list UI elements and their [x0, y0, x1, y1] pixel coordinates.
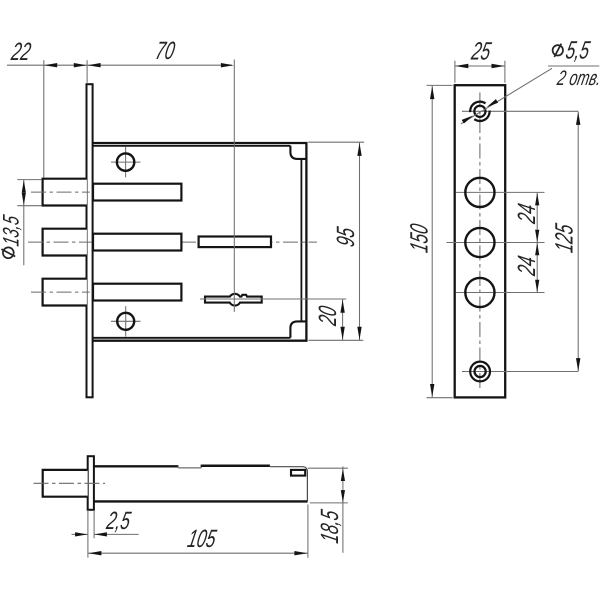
bolt hole 1 [465, 178, 494, 207]
bolt 1 [43, 179, 87, 206]
label 18,5 [316, 508, 344, 546]
arrow 70 left [88, 63, 101, 67]
extension line bolt end [43, 60, 45, 177]
top screw hole crosshair [462, 110, 578, 112]
bolt 2 [43, 229, 87, 256]
label 105 [185, 525, 218, 553]
lock body outline [93, 143, 307, 341]
leader line [461, 66, 600, 124]
hole row 2 centerline [447, 242, 545, 244]
dim 2.5 tails [72, 533, 139, 535]
leader arrow NE [487, 99, 498, 107]
top screw hole outer arcs [470, 102, 489, 121]
svg-text:2 отв.: 2 отв. [555, 67, 600, 90]
label 2,5 [104, 507, 133, 535]
leader arrow SW [462, 116, 473, 124]
keyhole slot [205, 294, 262, 306]
label dia 13,5 symbol [1, 247, 15, 258]
screw hole bottom [117, 313, 134, 330]
arrow 20 down [340, 327, 344, 340]
dim 95-20 ext bottom [308, 339, 363, 341]
label 5,5 [564, 36, 593, 64]
label dia 5,5 symbol [553, 44, 563, 57]
faceplate (bottom view) [88, 456, 94, 510]
arrow 105 left [88, 551, 101, 555]
svg-text:13,5: 13,5 [0, 213, 24, 248]
bolt hole 3 [465, 278, 494, 307]
dim 105 ext right [307, 505, 309, 558]
dim 150 ext top [427, 84, 453, 86]
dim 150 ext bottom [427, 397, 453, 399]
dim 105 line [88, 552, 308, 554]
extension line plate edge [86, 60, 88, 83]
bolt guide 2 [93, 234, 181, 251]
corner tab top-right [290, 146, 306, 159]
hole row 1 centerline [456, 191, 545, 193]
label 13,5 [0, 213, 24, 248]
svg-text:18,5: 18,5 [316, 508, 344, 546]
label 22 [8, 38, 33, 66]
body top notch [178, 465, 201, 468]
dim 24 line [536, 193, 538, 293]
label 95 [332, 225, 360, 249]
label 150 [405, 221, 433, 254]
label 24 lower [513, 254, 541, 279]
arrow 22 right [74, 63, 87, 67]
arrow 24a down [535, 230, 539, 243]
bolt 1 centerline [31, 191, 90, 193]
dim 95 line [359, 143, 361, 341]
dim 2.5 ext right [93, 510, 95, 538]
body top edge middle [201, 465, 270, 468]
dim 150 line [431, 86, 433, 398]
svg-text:125: 125 [550, 221, 578, 254]
dim 2.5 ext left [87, 510, 89, 558]
keyhole vertical axis [233, 60, 235, 312]
arrow 25 left [455, 64, 468, 68]
hole row 3 centerline [456, 292, 545, 294]
arrow 150 down [430, 384, 434, 397]
svg-text:105: 105 [185, 525, 218, 553]
dim 95 ext top [308, 141, 364, 143]
arrow 150 up [430, 86, 434, 99]
faceplate (front view) [455, 85, 506, 397]
arrow 25 right [492, 64, 505, 68]
arrow 18.5 up [341, 469, 345, 482]
screw hole top crosshair [111, 147, 141, 177]
dim 25 ext right [504, 61, 506, 83]
keyhole horizontal centerline [200, 298, 346, 300]
bolt (bottom view) [43, 470, 88, 497]
label 2 otv [555, 67, 600, 90]
arrow 22 left [44, 63, 57, 67]
body bottom edge [94, 500, 308, 502]
body top edge left [94, 465, 178, 467]
arrow 24b up [535, 243, 539, 256]
svg-text:150: 150 [405, 221, 433, 254]
dimension line 22-70 [7, 64, 232, 66]
bottom screw hole inner [475, 366, 486, 377]
arrow 70 right [221, 63, 234, 67]
body inner bottom edge [93, 337, 291, 339]
arrow 2.5 left [75, 532, 88, 536]
dim 25 ext left [454, 61, 456, 83]
label 24 upper [513, 201, 541, 226]
label 125 [550, 221, 578, 254]
bolt guide 3 [93, 284, 181, 301]
arrow 18.5 down [341, 490, 345, 503]
body inner top edge [93, 145, 291, 147]
arrow 95 down [357, 327, 361, 340]
arrow 20 up [340, 300, 344, 313]
arrow 13.5 down [22, 193, 26, 206]
bolt guide 1 [93, 184, 181, 201]
dim 18.5 ext bottom [310, 502, 348, 504]
arrow 125 up [576, 112, 580, 125]
bottom screw hole crosshair [462, 371, 578, 373]
body inner right edge [300, 159, 302, 322]
label 25 [469, 37, 494, 65]
bottom screw hole outer [470, 362, 490, 382]
dim 13.5 line [23, 180, 25, 265]
label 20 [314, 304, 342, 329]
bolt 2 centerline [28, 241, 317, 243]
bolt tail bar [199, 237, 271, 248]
arrow 95 up [357, 143, 361, 156]
dim 20 line [342, 299, 344, 340]
arrow 125 down [576, 358, 580, 371]
screw hole top [117, 153, 134, 170]
arrow 24b down [535, 280, 539, 293]
screw hole bottom crosshair [111, 306, 141, 336]
dim 25 line [455, 65, 505, 67]
corner tab bottom-right [290, 321, 306, 337]
bolt hole 2 [465, 228, 494, 257]
bolt 3 [43, 279, 87, 306]
arrow 13.5 up [22, 180, 26, 193]
dim 18.5 ext top [308, 467, 348, 469]
bolt centerline (bottom view) [34, 482, 106, 484]
arrow 105 right [294, 551, 307, 555]
top screw hole inner [474, 106, 485, 117]
dim 13.5 ext bottom [17, 205, 41, 207]
body top edge right [270, 467, 308, 501]
faceplate (side view) [87, 84, 93, 397]
dim 18.5 line [342, 467, 344, 553]
arrow 2.5 right [94, 532, 107, 536]
faceplate vertical centerline [479, 93, 481, 391]
arrow 24a up [535, 193, 539, 206]
bolt 3 centerline [31, 291, 90, 293]
label 70 [153, 37, 177, 65]
slot near right end [291, 470, 305, 476]
dim 13.5 ext top [17, 179, 41, 181]
dim 125 line [577, 112, 579, 372]
